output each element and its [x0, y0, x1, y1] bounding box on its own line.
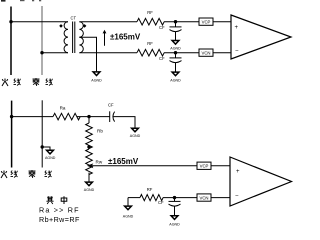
svg-text:VCP: VCP	[200, 164, 209, 169]
wire: neutral line bottom circuit	[41, 100, 43, 167]
wire: AGND to RF3	[128, 197, 140, 199]
wire: secondary center tap	[79, 37, 96, 71]
note 其中	[46, 196, 53, 204]
wire: live line bottom circuit	[11, 101, 13, 168]
svg-text:±165mV: ±165mV	[110, 32, 141, 41]
wire: neutral to AGND	[42, 147, 50, 150]
wire: VCP to op-amp U2 +	[211, 165, 230, 167]
svg-text:AGND: AGND	[123, 215, 134, 219]
net box VCP (top)	[199, 18, 213, 25]
label 火线 (top)	[2, 79, 8, 87]
wire: VCN to op-amp U2 -	[211, 197, 230, 199]
resistor Rb	[86, 123, 93, 149]
wire: secondary top lead to RF1	[79, 21, 137, 23]
wire: live line top circuit	[10, 7, 12, 76]
svg-text:VCN: VCN	[199, 196, 208, 201]
wire: neutral line top circuit	[41, 6, 43, 75]
resistor RF1	[137, 18, 164, 25]
node: junction neutral/AGND tap	[41, 145, 44, 148]
wire: secondary bottom lead to RF2	[79, 52, 137, 54]
svg-text:AGND: AGND	[169, 222, 180, 226]
svg-text:−: −	[235, 49, 239, 55]
capacitor CF2	[175, 53, 177, 58]
svg-text:+: +	[236, 169, 240, 175]
transformer T1 primary phase dot	[59, 24, 63, 28]
transformer T1 secondary winding upper	[79, 22, 83, 38]
wire: neutral to primary bottom	[42, 52, 68, 54]
svg-text:VCP: VCP	[202, 20, 211, 25]
resistor RF2	[137, 49, 164, 56]
svg-text:AGND: AGND	[130, 134, 141, 138]
ground AGND (center tap)	[93, 72, 100, 76]
net box VCN (top)	[199, 49, 213, 56]
label 零线 (top)	[33, 78, 40, 86]
svg-text:Rb+Rw=RF: Rb+Rw=RF	[39, 215, 80, 224]
svg-text:CF: CF	[108, 103, 114, 108]
wire: Rb to Rw	[88, 146, 90, 149]
node: junction Rb/Rw	[87, 145, 90, 148]
svg-text:AGND: AGND	[84, 188, 95, 192]
capacitor CF1	[175, 22, 177, 27]
label 零线 (bottom)	[29, 170, 36, 178]
svg-text:CF: CF	[159, 56, 165, 61]
svg-text:CF: CF	[158, 200, 164, 205]
svg-text:RF: RF	[147, 187, 153, 192]
potentiometer Rw wiper arrow	[87, 163, 94, 168]
svg-text:AGND: AGND	[45, 156, 56, 160]
svg-text:+: +	[235, 25, 239, 31]
clipped caption remnant top-left	[1, 0, 41, 2]
transformer T1 secondary winding lower	[79, 37, 83, 53]
voltage arrow ±165mV (top)	[104, 32, 106, 46]
svg-text:±165mV: ±165mV	[108, 157, 139, 166]
wire: live to Ra	[12, 116, 53, 118]
node: junction Ra/CF/Rb	[87, 115, 90, 118]
node: junction neutral/primary-bottom	[40, 51, 43, 54]
resistor RF3	[140, 195, 163, 201]
wire: VCN to op-amp U1 -	[213, 52, 231, 54]
wire: VCP to op-amp U1 +	[213, 21, 231, 23]
potentiometer Rw	[86, 149, 93, 175]
label 火线 (bottom)	[1, 171, 7, 179]
transformer T1 secondary phase dot	[83, 24, 87, 28]
net box VCN (bottom)	[197, 194, 211, 201]
svg-text:AGND: AGND	[170, 47, 181, 51]
transformer T1 primary winding	[64, 22, 68, 53]
op-amp U1	[231, 15, 291, 59]
ground AGND (neutral)	[47, 150, 54, 154]
op-amp U2	[230, 157, 292, 206]
wire: Rw bottom to AGND	[88, 173, 90, 182]
wire: RF2 to VCN box	[164, 52, 199, 54]
svg-text:Rw: Rw	[96, 160, 103, 165]
wire: node B down to Rb	[88, 117, 90, 123]
ground AGND (CF2)	[172, 72, 179, 76]
capacitor CF (bottom, series)	[109, 111, 111, 122]
node: junction RF1/CF1	[174, 20, 177, 23]
node: junction RF2/CF2	[174, 51, 177, 54]
wire: CF to AGND drop	[113, 117, 135, 128]
wire: Ra to node B	[77, 116, 110, 118]
svg-text:AGND: AGND	[91, 78, 102, 82]
net box VCP (bottom)	[197, 162, 211, 169]
svg-text:CT: CT	[71, 15, 77, 20]
ground AGND (CF1)	[172, 41, 179, 45]
node: junction live/primary-top	[9, 20, 12, 23]
svg-text:RF: RF	[147, 10, 153, 15]
svg-text:VCN: VCN	[201, 51, 210, 56]
svg-text:RF: RF	[147, 41, 153, 46]
svg-text:Ra >> RF: Ra >> RF	[39, 206, 80, 215]
capacitor CF3	[174, 198, 176, 202]
ground AGND (CF3)	[171, 216, 178, 220]
wire: wiper to VCP box (bottom)	[92, 165, 197, 167]
wire: live to primary top	[11, 21, 68, 23]
node: junction RF3/CF3	[173, 196, 176, 199]
ground AGND (Rw)	[86, 182, 93, 186]
svg-text:Rb: Rb	[97, 128, 103, 133]
svg-text:CF: CF	[159, 25, 165, 30]
node: junction live/Ra	[10, 115, 13, 118]
ground AGND (RF3 left)	[127, 198, 129, 206]
transformer T1 core	[73, 22, 75, 54]
svg-text:AGND: AGND	[170, 78, 181, 82]
resistor Ra	[53, 113, 80, 120]
wire: RF3 to VCN box (bottom)	[163, 197, 197, 199]
svg-text:Ra: Ra	[60, 106, 66, 111]
svg-text:−: −	[235, 193, 239, 199]
wire: RF1 to VCP box	[164, 21, 199, 23]
ground AGND (after CF)	[132, 128, 139, 132]
